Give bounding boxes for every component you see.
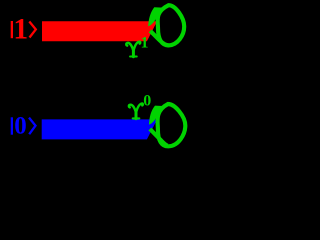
- svg-text:1: 1: [141, 35, 149, 52]
- svg-text:1: 1: [13, 14, 28, 46]
- label Y^0 (green upsilon with superscript 0): [129, 103, 143, 118]
- arrow shaft with hook tip into bar (top): [148, 7, 165, 26]
- label Y^1 (green upsilon with superscript 1): [126, 42, 140, 57]
- self-loop ellipse (bottom): [158, 104, 186, 146]
- self-loop ellipse (top): [158, 5, 185, 45]
- energy level bar |1> (red, slanted right end): [42, 21, 157, 41]
- loop lower-left band crossing bar corner (bottom): [150, 129, 168, 146]
- energy level bar |0> (blue, slanted right end): [42, 119, 157, 139]
- loop lower-left band crossing bar corner (top): [150, 31, 169, 46]
- svg-text:0: 0: [14, 113, 27, 140]
- ket label |0>: [11, 113, 36, 140]
- arrow shaft with hook tip into bar (bottom): [149, 106, 166, 125]
- svg-text:0: 0: [143, 93, 151, 110]
- ket label |1>: [11, 14, 36, 46]
